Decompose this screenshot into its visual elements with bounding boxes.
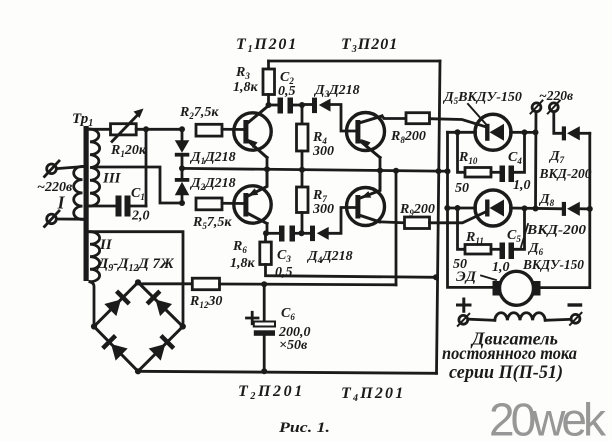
winding III <box>90 129 100 206</box>
svg-text:R120к: R120к <box>110 143 147 159</box>
winding II <box>90 232 100 282</box>
svg-text:ЭД: ЭД <box>456 269 477 285</box>
diode D8 VKD-200 <box>562 202 566 216</box>
svg-text:~220в: ~220в <box>37 180 73 195</box>
thyristor D5 VKDU-150 <box>475 114 511 150</box>
node D2 bottom <box>179 200 185 206</box>
input terminal top <box>47 164 57 174</box>
resistor R7 <box>301 170 304 187</box>
svg-text:I: I <box>57 193 66 213</box>
bridge diode D10 <box>146 290 173 317</box>
svg-text:III: III <box>102 171 122 187</box>
svg-text:~220в: ~220в <box>539 88 573 103</box>
svg-text:Д1Д218: Д1Д218 <box>189 150 236 166</box>
capacitor C2 <box>269 104 278 107</box>
svg-text:Д2Д218: Д2Д218 <box>189 176 236 192</box>
svg-text:R9200: R9200 <box>399 202 435 218</box>
svg-text:0,5: 0,5 <box>278 84 296 99</box>
wire winding II bottom to bridge left <box>90 282 94 327</box>
transistor T3 P201 <box>347 113 385 151</box>
resistor R3 <box>267 61 270 69</box>
output plus sign <box>458 299 471 311</box>
resistor R2 <box>196 124 222 136</box>
svg-text:постоянного тока: постоянного тока <box>442 343 577 363</box>
AC terminal 1 <box>532 103 541 112</box>
wire AC1 down <box>534 112 537 209</box>
capacitor C1 <box>116 196 122 217</box>
right rail <box>540 133 590 287</box>
resistor R12 <box>138 282 192 284</box>
transistor T4 P201 <box>347 188 385 226</box>
svg-text:ВКД-200: ВКД-200 <box>526 223 586 238</box>
svg-text:20wek: 20wek <box>489 394 607 441</box>
svg-text:Д4Д218: Д4Д218 <box>306 249 353 265</box>
field winding coil <box>468 319 495 320</box>
rail B vertical <box>448 132 494 287</box>
wire R2 to T1 base <box>222 128 244 131</box>
diode D7 VKD-200 <box>562 126 566 140</box>
node R1 out <box>143 126 149 132</box>
capacitor C4 <box>500 166 506 183</box>
svg-text:Рис. 1.: Рис. 1. <box>279 420 330 436</box>
winding I bottom lead <box>57 218 83 221</box>
AC terminal 2 <box>549 103 558 112</box>
resistor R1 (variable) <box>111 124 137 135</box>
resistor R5 <box>196 198 222 210</box>
thyristor D6 VKDU-150 <box>475 190 511 226</box>
wire R8 to D5 gate <box>430 119 487 127</box>
wire winding II top to bridge right <box>90 232 183 327</box>
svg-text:×50в: ×50в <box>279 338 308 353</box>
emitter rail <box>182 168 448 171</box>
svg-text:ВКДУ-150: ВКДУ-150 <box>522 258 584 273</box>
svg-text:300: 300 <box>312 202 334 217</box>
svg-text:1,0: 1,0 <box>513 178 531 193</box>
svg-text:R8200: R8200 <box>390 129 426 145</box>
capacitor C5 <box>500 243 506 260</box>
bridge rectifier frame <box>94 282 183 371</box>
svg-text:ВКД-200: ВКД-200 <box>539 167 592 182</box>
output terminal plus <box>459 315 468 324</box>
node C2/R4/D3 <box>299 102 305 108</box>
bottom rail <box>138 371 437 373</box>
resistor R9 <box>380 222 405 223</box>
diode D1 D218 <box>181 129 184 141</box>
node C3/R7/D4 <box>299 230 305 236</box>
bridge diode D11 <box>101 334 128 361</box>
diode D4 D218 <box>302 232 310 235</box>
wire R9 to D6 gate <box>430 212 487 223</box>
svg-text:1,8к: 1,8к <box>233 80 259 95</box>
wire R1 out down to C1 <box>145 129 148 206</box>
node diode string top <box>179 126 185 132</box>
svg-text:серии П(П-51): серии П(П-51) <box>449 363 563 383</box>
resistor R11 <box>458 208 466 249</box>
wire R12 rail <box>220 283 397 287</box>
output terminal minus <box>571 314 580 323</box>
winding I <box>74 166 83 219</box>
wire row2 <box>448 207 476 210</box>
rail A vertical <box>437 61 441 373</box>
svg-text:0,5: 0,5 <box>275 265 293 280</box>
bridge diode D12 <box>148 334 175 361</box>
bridge diode D9 <box>104 290 131 317</box>
svg-text:R57,5к: R57,5к <box>192 215 232 231</box>
svg-text:1,8к: 1,8к <box>230 256 256 271</box>
top rail <box>269 60 441 63</box>
svg-text:Т3П201: Т3П201 <box>341 36 398 55</box>
wire AC2 to D7 <box>554 112 562 134</box>
node D1-D2 midpoint <box>179 165 185 171</box>
svg-text:Д3Д218: Д3Д218 <box>313 83 360 99</box>
diode D2 D218 <box>175 178 190 182</box>
svg-text:2,0: 2,0 <box>131 209 150 224</box>
input terminal bottom <box>47 214 57 224</box>
node R3/C2/T1 collector <box>266 102 272 108</box>
transistor T1 P201 <box>234 113 271 150</box>
svg-text:II: II <box>99 237 113 253</box>
resistor R10 <box>458 132 466 172</box>
transformer TR1 core <box>84 126 89 281</box>
resistor R4 <box>301 105 304 124</box>
svg-text:Т1П201: Т1П201 <box>236 36 298 55</box>
svg-text:50: 50 <box>455 181 469 196</box>
motor ED <box>500 271 534 305</box>
D6 label pointer <box>521 224 528 247</box>
svg-text:Т2П201: Т2П201 <box>238 383 305 402</box>
winding I top lead <box>57 167 83 169</box>
diode D3 D218 <box>302 103 311 106</box>
svg-text:300: 300 <box>312 144 334 159</box>
wire winding III tap <box>95 167 182 203</box>
capacitor C3 <box>266 232 279 235</box>
resistor R8 <box>382 116 406 119</box>
svg-text:Т4П201: Т4П201 <box>341 385 405 404</box>
transistor T2 P201 <box>234 186 271 223</box>
wire rail1 from R12 <box>395 171 398 285</box>
resistor R6 <box>263 230 269 236</box>
output minus sign <box>569 303 580 306</box>
wire row1 <box>448 131 476 134</box>
capacitor C6 <box>263 284 266 321</box>
svg-text:R27,5к: R27,5к <box>179 105 219 121</box>
wire R5 to T2 base <box>222 202 244 205</box>
